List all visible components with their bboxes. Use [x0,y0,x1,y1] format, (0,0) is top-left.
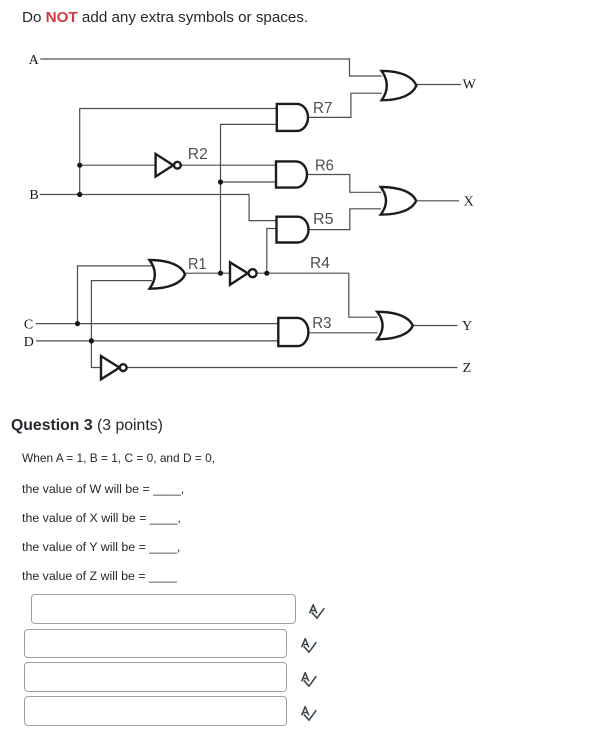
svg-text:C: C [24,318,33,333]
svg-text:W: W [463,78,477,93]
svg-text:R2: R2 [188,146,208,163]
svg-text:Y: Y [462,319,472,334]
svg-text:A: A [29,53,40,68]
svg-text:R3: R3 [312,315,331,332]
svg-text:B: B [29,188,38,203]
svg-text:R6: R6 [315,158,334,175]
svg-text:R1: R1 [188,256,207,273]
svg-text:D: D [24,335,34,350]
svg-text:R4: R4 [310,255,330,272]
svg-text:R7: R7 [313,100,332,117]
svg-text:R5: R5 [313,211,334,228]
svg-text:X: X [464,194,474,209]
svg-text:Z: Z [463,361,472,376]
